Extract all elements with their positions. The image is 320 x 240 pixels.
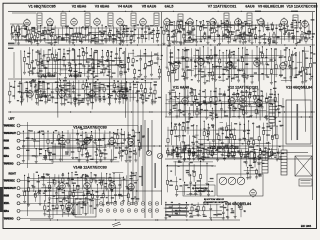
filter row value label 16	[224, 146, 227, 147]
jack wire L2	[23, 140, 104, 142]
AM section component string 10	[51, 83, 53, 92]
AM section component string 18a	[86, 80, 88, 83]
audio driver component string 8	[199, 90, 201, 112]
AM section value label 1	[136, 82, 138, 83]
IF strip parts L component string 10	[44, 27, 46, 30]
mpx section wire s2	[238, 70, 243, 72]
rail wire 1	[132, 90, 134, 202]
audio driver value label 24	[259, 100, 263, 101]
power supply value label 11	[171, 202, 173, 203]
AM section wire h2	[36, 88, 123, 90]
IF strip parts R component string 40	[308, 24, 310, 31]
svg-text:V16 6BQ5/EL84: V16 6BQ5/EL84	[225, 202, 251, 206]
tone control wire s1	[195, 134, 199, 136]
jack J1 left TAPE REC	[17, 124, 20, 127]
AM section component string 24b	[115, 92, 117, 99]
left preamp value label 1	[43, 157, 47, 158]
power supply component string 7	[210, 204, 212, 208]
mpx section value label 26	[204, 61, 207, 62]
AM section wire h3	[39, 82, 153, 84]
AM section component string 32	[144, 81, 146, 89]
FM front end value label 22	[41, 65, 43, 66]
output stage wire s0	[78, 201, 84, 203]
left preamp wire s0	[78, 141, 86, 143]
audio driver wire s0	[232, 116, 236, 118]
output stage component string 1	[48, 200, 50, 210]
IF strip parts L value label 43	[95, 41, 99, 42]
AM section component string 8b	[45, 93, 47, 97]
IF strip parts R value label 9	[264, 42, 266, 43]
output stage wire s1	[65, 212, 74, 214]
AM section value label 25	[25, 90, 28, 91]
tube top row 6	[164, 19, 171, 26]
FM front end value label 18	[88, 65, 90, 66]
right preamp value label 17	[34, 194, 36, 195]
IF strip parts L wire s4	[155, 24, 158, 26]
left preamp value label 14	[88, 155, 91, 156]
right preamp value label 8	[75, 198, 78, 199]
IF strip parts L component string 11	[47, 26, 49, 30]
mpx section component string 8	[198, 50, 200, 80]
tone control value label 7	[271, 136, 273, 137]
IF strip parts L value label 27	[104, 31, 107, 32]
audio driver component string 6b	[193, 102, 195, 116]
IF strip parts L value label 31	[42, 32, 44, 33]
svg-text:MAG: MAG	[4, 155, 9, 158]
output stage wire s2	[73, 213, 77, 215]
AM section value label 10	[141, 79, 143, 80]
left preamp wire h2	[42, 158, 116, 160]
FM front end value label 0	[86, 58, 90, 59]
tone control component string 24	[271, 124, 273, 135]
output stage value label 4	[52, 205, 55, 206]
right preamp wire h3	[51, 177, 123, 179]
IF strip parts L value label 6	[121, 25, 125, 26]
mpx section component string 31	[295, 53, 297, 68]
parts list line 0	[165, 204, 189, 205]
AM section wire s3	[133, 86, 137, 88]
IF strip parts L wire h2	[32, 27, 151, 29]
tone control value label 9	[206, 136, 208, 137]
IF strip parts R value label 0	[177, 21, 181, 22]
AM section value label 28	[81, 102, 85, 103]
IF strip parts R component string 0	[163, 23, 165, 30]
left preamp value label 21	[125, 147, 129, 148]
IF strip parts R value label 39	[292, 37, 295, 38]
right preamp component string 10a	[71, 173, 73, 179]
audio driver value label 5	[242, 99, 245, 100]
tone control component string 2b	[176, 135, 178, 148]
jack J8 right TAPE PLAY	[17, 187, 20, 190]
filter row component string 20	[277, 148, 279, 152]
switch board outline	[217, 174, 263, 196]
right preamp component string 17b	[107, 189, 109, 201]
tone control component string 22	[263, 123, 265, 131]
filter row component string 2	[177, 149, 179, 155]
IF strip parts L wire s9	[95, 43, 104, 45]
FM front end value label 3	[120, 62, 123, 63]
AM section component string 19	[90, 85, 92, 96]
audio driver wire s3	[166, 99, 176, 101]
filter row value label 2	[246, 156, 250, 157]
audio driver component string 6a	[191, 89, 193, 92]
FM front end value label 7	[28, 71, 30, 72]
AM section component string 15b	[74, 93, 76, 98]
AM section value label 27	[49, 95, 51, 96]
mpx section component string 5	[186, 50, 188, 57]
switch area wire s1	[208, 181, 214, 183]
IF strip parts R wire h3	[207, 24, 286, 26]
IF strip parts L value label 22	[48, 42, 52, 43]
svg-text:V14A 12AX7/ECC83: V14A 12AX7/ECC83	[73, 126, 106, 130]
tone control component string 17	[239, 122, 241, 139]
mpx section value label 12	[238, 70, 242, 71]
IF strip parts R value label 37	[200, 41, 202, 42]
mpx section value label 7	[184, 50, 188, 51]
AM section component string 7b	[40, 91, 42, 94]
bus wire mid1	[8, 78, 160, 80]
switch area component string 6b	[208, 184, 210, 190]
B+ rail vertical	[161, 12, 163, 205]
jack J9 right PGM	[17, 194, 20, 197]
svg-text:XTAL: XTAL	[4, 147, 10, 150]
FM front end value label 16	[88, 68, 92, 69]
audio driver component string 12b	[220, 103, 222, 109]
IF strip parts L wire s0	[45, 42, 55, 44]
audio driver component string 10b	[211, 108, 213, 112]
output stage component string 6	[79, 201, 81, 214]
svg-text:MAG: MAG	[4, 210, 9, 213]
mpx section component string 19b	[243, 70, 245, 74]
jack J11 right MAG	[17, 209, 20, 212]
right preamp value label 6	[134, 196, 136, 197]
right preamp wire s7	[47, 181, 55, 183]
mpx section component string 10b	[209, 63, 211, 75]
mpx section value label 5	[291, 54, 294, 55]
power supply wire s2	[181, 210, 185, 212]
filter row value label 0	[211, 150, 214, 151]
IF strip parts R value label 33	[283, 28, 285, 29]
IF strip parts R component string 30b	[268, 32, 270, 38]
vertical wire right 9	[304, 47, 305, 132]
right preamp value label 5	[45, 190, 48, 191]
left preamp component string 14b	[92, 142, 94, 160]
filter row value label 15	[218, 151, 222, 152]
tone control component string 15	[230, 122, 232, 134]
FM front end wire s4	[43, 54, 50, 56]
mpx section value label 29	[228, 76, 231, 77]
bus wire B+ h1 junctions	[151, 111, 152, 112]
switch area component string 6a	[206, 163, 208, 183]
filter row wire h0	[181, 148, 248, 150]
switch area component string 1a	[174, 161, 176, 176]
AM section wire s9	[103, 85, 116, 87]
FM front end value label 20	[104, 68, 107, 69]
audio driver value label 13	[241, 106, 244, 107]
tube V15a L	[109, 138, 116, 145]
IF strip parts L component string 19	[75, 27, 77, 33]
filter row wire s5	[184, 152, 197, 154]
right preamp value label 4	[66, 183, 69, 184]
left preamp wire h0	[48, 146, 106, 148]
IF strip parts L component string 24	[90, 27, 92, 42]
rail tag text 0	[141, 125, 142, 149]
power supply component string 1	[171, 205, 173, 216]
audio driver wire s5	[248, 106, 261, 108]
filter row component string 0	[167, 149, 169, 150]
mpx section component string 11b	[212, 65, 214, 72]
IF strip parts L value label 19	[103, 31, 105, 32]
tone control value label 10	[271, 128, 273, 129]
filter row value label 7	[272, 153, 276, 154]
left preamp component string 16b	[100, 151, 102, 153]
IF strip parts R component string 23b	[242, 34, 244, 36]
FM front end component string 11b	[70, 64, 72, 68]
left preamp value label 11	[101, 152, 104, 153]
FM front end component string 11a	[68, 48, 70, 63]
tone control wire s0	[240, 153, 245, 155]
tone control wire s7	[227, 128, 236, 130]
right preamp component string 18a	[109, 174, 111, 177]
FM front end value label 26	[97, 60, 99, 61]
right preamp component string 13a	[85, 175, 87, 179]
svg-text:PILOT 250V: PILOT 250V	[195, 191, 207, 193]
audio driver component string 11	[215, 88, 217, 97]
IF strip parts L value label 14	[76, 36, 79, 37]
audio driver value label 7	[172, 90, 175, 91]
mpx section mid wire s0	[160, 58, 162, 60]
right preamp value label 1	[91, 178, 95, 179]
audio driver value label 6	[228, 105, 232, 106]
rail tag text 2	[155, 163, 156, 188]
tone control component string 3b	[180, 142, 182, 156]
IF strip parts L value label 39	[108, 25, 111, 26]
right preamp value label 2	[36, 172, 38, 173]
mpx section mid component string 4	[151, 52, 153, 61]
mpx section value label 9	[168, 62, 172, 63]
mpx section component string 27	[280, 50, 282, 75]
IF strip parts L component string 34	[126, 26, 128, 36]
IF strip parts L component string 17	[69, 28, 71, 38]
IF strip parts L component string 29	[109, 28, 111, 32]
AM section component string 12b	[61, 90, 63, 104]
filter row value label 1	[185, 147, 187, 148]
right preamp component string 7	[58, 175, 60, 187]
tone control wire s2	[227, 125, 231, 127]
left preamp component string 5b	[49, 151, 51, 154]
AM section value label 19	[78, 102, 81, 103]
audio driver component string 17a	[241, 91, 243, 106]
svg-text:B) BOTTOM VIEW OF: B) BOTTOM VIEW OF	[204, 199, 225, 201]
filter row value label 8	[167, 154, 169, 155]
label MAG L	[4, 155, 7, 157]
IF strip parts R value label 14	[304, 37, 307, 38]
switch wafer S1	[219, 177, 227, 185]
output stage value label 3	[91, 200, 94, 201]
mpx section wire s1	[228, 65, 237, 67]
IF strip parts L wire s3	[105, 37, 116, 39]
right preamp wire s5	[71, 202, 79, 204]
rail tag text 1	[148, 128, 149, 152]
AM section wire h0	[43, 93, 156, 95]
left preamp value label 22	[23, 140, 25, 141]
right preamp value label 9	[73, 183, 76, 184]
left preamp component string 23b	[129, 149, 131, 156]
right preamp component string 1	[28, 173, 30, 187]
FM front end wire s6	[60, 69, 68, 71]
out stage right component string 1a	[245, 155, 247, 162]
tone control value label 14	[191, 142, 194, 143]
out stage right component string 0	[240, 156, 242, 176]
AM section component string 4	[26, 82, 28, 96]
tone control value label 11	[250, 138, 253, 139]
right preamp component string 22a	[126, 175, 128, 186]
bus wire right1b	[166, 152, 308, 154]
IF strip parts L value label 15	[50, 35, 53, 36]
right preamp value label 18	[102, 180, 104, 181]
mpx section component string 16a	[229, 49, 231, 54]
tube V12a	[229, 98, 236, 105]
mpx section component string 14	[222, 53, 224, 82]
right preamp value label 14	[131, 173, 134, 174]
mpx section wire s4	[203, 66, 207, 68]
right preamp value label 0	[32, 186, 35, 187]
audio driver component string 14a	[228, 89, 230, 99]
svg-text:V13 6BQ5/EL84: V13 6BQ5/EL84	[286, 86, 312, 90]
left preamp component string 19	[113, 133, 115, 161]
vertical wire right 6	[258, 48, 261, 121]
tube mpx a	[173, 63, 180, 70]
output stage component string 8	[90, 199, 92, 206]
mpx section component string 22a	[256, 47, 258, 62]
left preamp value label 17	[55, 130, 58, 131]
tone control component string 11	[212, 127, 214, 140]
right preamp value label 16	[82, 174, 84, 175]
mpx section value label 16	[175, 79, 179, 80]
tube V14a R	[59, 183, 66, 190]
AM section component string 6a	[34, 80, 36, 87]
IF strip parts R value label 27	[262, 35, 264, 36]
audio driver value label 16	[239, 109, 243, 110]
AM section component string 20	[95, 82, 97, 100]
audio driver value label 10	[204, 110, 208, 111]
rail wire 3	[142, 90, 144, 202]
FM front end value label 13	[72, 49, 75, 50]
label TAPE PLAY R	[4, 187, 14, 189]
AM section component string 29	[132, 81, 134, 100]
filter row component string 16	[254, 150, 256, 154]
IF strip parts L value label 35	[65, 26, 69, 27]
filter row value label 9	[249, 158, 251, 159]
tone control value label 23	[194, 137, 197, 138]
left preamp component string 5a	[47, 131, 49, 139]
IF strip parts R component string 5a	[178, 22, 180, 25]
jack J6 left TAPE HD	[17, 162, 20, 165]
tone control component string 4a	[182, 122, 184, 126]
IF strip parts L value label 3	[116, 29, 118, 30]
audio driver value label 11	[265, 116, 268, 117]
tone control component string 10b	[209, 141, 211, 147]
AM section component string 16	[78, 80, 80, 103]
IF strip parts R component string 34	[284, 23, 286, 34]
left preamp component string 4b	[45, 151, 47, 156]
IF strip parts R value label 5	[171, 36, 175, 37]
output stage component string 7	[85, 198, 87, 214]
right preamp component string 6b	[55, 188, 57, 193]
right preamp component string 9a	[68, 173, 70, 179]
filter row value label 6	[266, 152, 269, 153]
IF strip parts R value label 24	[179, 42, 183, 43]
tone control component string 5a	[187, 122, 189, 128]
left preamp value label 8	[86, 137, 90, 138]
tube second row a	[27, 91, 34, 98]
AM section component string 13	[63, 83, 65, 104]
IF strip parts R value label 34	[172, 42, 174, 43]
IF strip parts L component string 42	[156, 28, 158, 34]
AM section wire s2	[59, 84, 71, 86]
audio driver component string 12a	[219, 89, 221, 102]
switch area component string 2a	[182, 162, 184, 182]
IF strip parts R value label 13	[224, 34, 227, 35]
jack J7 right TAPE REC	[17, 179, 20, 182]
tube socket row 1	[99, 202, 103, 206]
IF strip parts R wire s9	[311, 39, 314, 41]
left preamp wire h1	[25, 138, 134, 140]
right preamp component string 4b	[44, 185, 46, 190]
IF strip parts R value label 42	[181, 28, 185, 29]
tone control component string 6	[193, 125, 195, 143]
tone control component string 18b	[245, 138, 247, 155]
IF strip parts R value label 28	[259, 36, 263, 37]
tone control wire s3	[263, 130, 271, 132]
IF strip parts R wire h1	[196, 35, 307, 37]
audio driver wire h1	[176, 102, 273, 104]
mpx section value label 22	[199, 68, 201, 69]
tube top row 0	[24, 20, 31, 27]
mpx section wire s6	[186, 69, 194, 71]
AM section value label 20	[108, 97, 110, 98]
FM front end wire s3	[115, 63, 124, 65]
tube V11 6AN8	[182, 98, 189, 105]
tone control value label 18	[274, 134, 276, 135]
right preamp component string 8b	[63, 190, 65, 198]
heater rail	[144, 120, 146, 218]
filter row value label 5	[197, 147, 201, 148]
tube V14a L	[59, 138, 66, 145]
left preamp component string 17	[104, 130, 106, 149]
IF strip parts L wire s6	[18, 28, 25, 30]
mpx section mid value label 2	[154, 62, 158, 63]
mpx section mid wire h0	[137, 55, 159, 57]
mpx section value label 8	[170, 56, 174, 57]
IF strip parts R component string 31b	[273, 32, 275, 34]
IF strip parts L component string 8	[37, 26, 39, 33]
tube mpx c	[227, 62, 234, 69]
AM section component string 12a	[59, 80, 61, 85]
audio driver wire s2	[249, 115, 252, 117]
mpx section component string 16b	[230, 63, 232, 83]
mpx section value label 23	[224, 67, 227, 68]
IF strip parts R component string 19a	[226, 20, 228, 21]
IF strip parts R component string 36a	[291, 23, 293, 27]
mpx section component string 3	[178, 50, 180, 61]
FM front end component string 10a	[63, 49, 65, 57]
FM front end value label 4	[30, 70, 33, 71]
AM section wire s6	[129, 96, 136, 98]
tube top row 11	[281, 19, 288, 26]
power supply value label 8	[231, 210, 234, 211]
svg-text:V14B 12AX7/ECC83: V14B 12AX7/ECC83	[73, 166, 107, 170]
